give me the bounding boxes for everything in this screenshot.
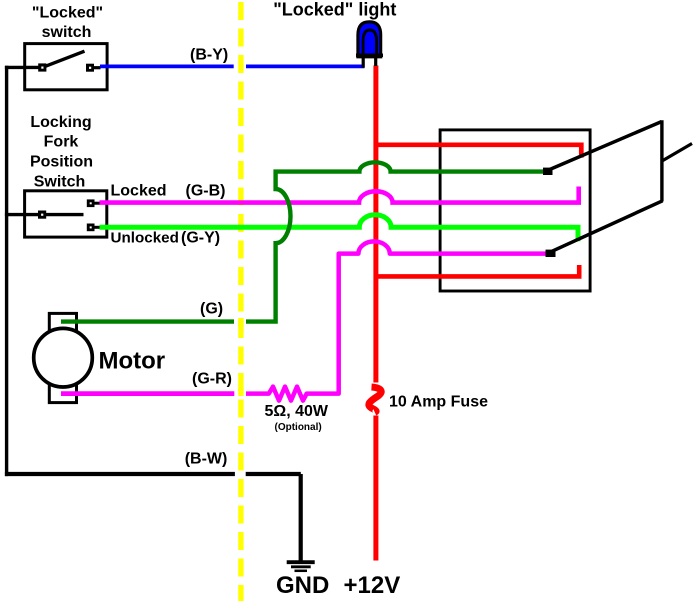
firewall divider dash extension at (G-R) crossing <box>238 388 243 396</box>
switch S1 "Locked" switch box <box>25 44 107 90</box>
wire (G-Y) green Unlocked <box>100 215 579 241</box>
wire harness diagonal 1 <box>543 122 662 175</box>
fuse F1 10 Amp fuse squiggle <box>369 387 381 412</box>
wire (B-W) right of firewall <box>246 472 301 476</box>
switch S1 right terminal <box>86 64 94 72</box>
fuse F1 red feed wire upper (+12V riser) <box>373 66 378 383</box>
switch S1 blade <box>44 51 85 67</box>
switch S2 Unlocked contact <box>87 224 100 232</box>
svg-text:switch: switch <box>42 24 92 41</box>
switch S1 output stub <box>92 66 101 69</box>
lamp DS1 "Locked" light body <box>358 22 381 57</box>
svg-text:(Optional): (Optional) <box>275 422 322 433</box>
motor M1 body rectangle <box>49 313 76 402</box>
switch S1 left terminal <box>38 63 46 71</box>
svg-text:"Locked": "Locked" <box>32 5 103 22</box>
wire ground bus (left vertical black) <box>5 66 8 476</box>
ground symbol <box>287 562 315 571</box>
wire (G-R) right of firewall with resistor R1 <box>246 241 547 400</box>
wire bus to "Locked" switch <box>5 66 39 69</box>
svg-text:Locking: Locking <box>30 114 91 131</box>
wire red branch to connector top <box>376 145 581 158</box>
wire (B-Y) blue right of firewall <box>246 65 365 69</box>
svg-text:(G): (G) <box>200 300 223 317</box>
connector J2 stub wire <box>662 144 692 162</box>
wire (G) dark green motor feed <box>61 319 234 323</box>
svg-text:Locked: Locked <box>111 183 167 200</box>
svg-text:(G-R): (G-R) <box>192 371 232 388</box>
lamp DS1 right leg <box>374 56 377 66</box>
svg-text:Switch: Switch <box>34 173 86 190</box>
svg-text:Motor: Motor <box>99 348 166 375</box>
svg-text:10 Amp Fuse: 10 Amp Fuse <box>389 394 488 411</box>
wire bus to Locking Fork switch common <box>5 213 38 216</box>
resistor R1 and wire (G-R) magenta <box>61 391 234 396</box>
wire (B-Y) blue <box>100 65 234 69</box>
svg-text:(G-Y): (G-Y) <box>181 230 220 247</box>
wire (B-W) ground wire <box>5 472 235 476</box>
svg-text:Unlocked: Unlocked <box>111 230 179 247</box>
switch S2 common terminal <box>38 211 46 219</box>
fuse F1 red feed wire lower <box>373 416 378 561</box>
firewall divider dash extension at (G) crossing <box>238 318 243 327</box>
svg-text:"Locked" light: "Locked" light <box>273 0 396 19</box>
motor M1 circle <box>34 328 93 387</box>
svg-text:Fork: Fork <box>44 134 79 151</box>
wire (G) right of firewall <box>246 162 549 321</box>
wire red branch to connector bottom <box>376 265 579 276</box>
firewall divider (yellow dashed line) <box>238 0 243 601</box>
connector J2 shell (parallelogram) right edge <box>660 120 663 201</box>
svg-text:(G-B): (G-B) <box>186 183 226 200</box>
wire GND drop <box>299 474 303 561</box>
lamp DS1 inner filament arch <box>363 30 376 56</box>
svg-text:(B-W): (B-W) <box>185 451 228 468</box>
switch S2 Locking Fork Position Switch box <box>25 191 107 237</box>
switch S2 wiper arm <box>45 213 84 216</box>
connector J1 box <box>440 130 590 291</box>
switch S2 Locked contact <box>87 199 100 207</box>
svg-text:(B-Y): (B-Y) <box>190 47 228 64</box>
svg-text:GND: GND <box>276 572 329 599</box>
svg-text:5Ω, 40W: 5Ω, 40W <box>265 403 329 420</box>
svg-text:Position: Position <box>30 154 93 171</box>
wire harness diagonal 2 <box>546 201 663 257</box>
lamp DS1 base bar <box>356 53 383 57</box>
svg-text:+12V: +12V <box>344 572 401 599</box>
lamp DS1 left leg <box>362 56 365 68</box>
wire (G-B) magenta Locked <box>100 187 579 203</box>
